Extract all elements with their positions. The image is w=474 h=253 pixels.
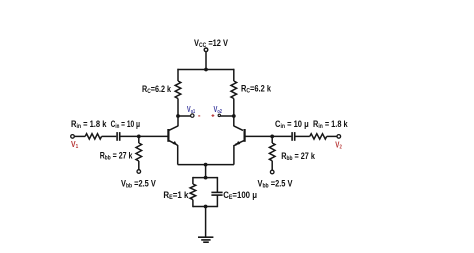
svg-text:RE=1 k: RE=1 k <box>163 190 189 201</box>
svg-text:Cin = 10 μ: Cin = 10 μ <box>275 119 309 130</box>
svg-text:Rin = 1.8 k: Rin = 1.8 k <box>71 119 107 130</box>
svg-text:Cin = 10 μ: Cin = 10 μ <box>111 119 141 130</box>
svg-text:RC=6.2 k: RC=6.2 k <box>241 84 272 95</box>
svg-text:Rin = 1.8 k: Rin = 1.8 k <box>313 119 348 130</box>
svg-text:CE=100 μ: CE=100 μ <box>223 190 257 201</box>
svg-text:RC=6.2 k: RC=6.2 k <box>142 84 172 95</box>
svg-text:Rbb = 27 k: Rbb = 27 k <box>281 151 315 162</box>
svg-text:Rbb = 27 k: Rbb = 27 k <box>100 151 134 162</box>
